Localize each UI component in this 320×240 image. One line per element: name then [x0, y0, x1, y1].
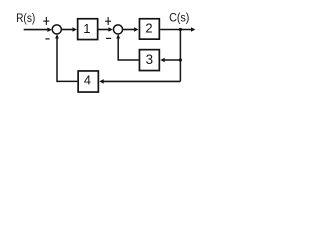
svg-text:2: 2: [145, 21, 152, 36]
wire block 3 output to S2 lower input: [118, 35, 138, 60]
wire S1 to block 1: [61, 27, 77, 32]
block 2: [139, 19, 159, 39]
block 3: [139, 50, 159, 71]
svg-text:4: 4: [84, 74, 91, 88]
node junction dot on output line: [179, 28, 182, 31]
node junction dot on feedback branch to block 3: [179, 58, 182, 61]
summing junction S1: [52, 25, 61, 34]
block 4: [78, 71, 98, 92]
wire R(s) input arrow into summing junction S1: [24, 27, 52, 32]
block 1: [78, 19, 98, 40]
wire feedback into block 3: [160, 58, 180, 63]
summing junction S2: [113, 25, 122, 34]
plus sign at summing junction S1: [43, 17, 49, 25]
wire feedback into block 4: [99, 79, 180, 84]
svg-text:3: 3: [146, 52, 153, 67]
arrowhead up into S2: [116, 34, 120, 38]
arrowhead up into S1: [55, 34, 59, 38]
svg-text:C(s): C(s): [169, 11, 189, 25]
svg-text:1: 1: [83, 21, 90, 36]
wire block 4 output to S1 lower input: [57, 36, 77, 82]
plus sign at summing junction S2: [105, 17, 111, 25]
wire vertical feedback drop from output node: [179, 30, 181, 82]
svg-text:R(s): R(s): [16, 11, 35, 25]
wire block 2 to C(s) output: [160, 27, 195, 32]
minus sign at summing junction S1: [45, 38, 49, 40]
minus sign at summing junction S2: [106, 37, 111, 39]
wire S2 to block 2: [123, 27, 139, 32]
wire block 1 to summing junction S2: [98, 27, 112, 32]
